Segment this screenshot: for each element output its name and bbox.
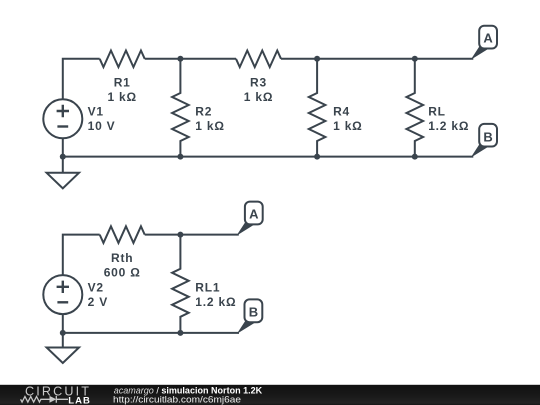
logo diode [50, 396, 69, 403]
wire bottom rail 2 [63, 332, 239, 334]
svg-text:1.2 kΩ: 1.2 kΩ [195, 295, 236, 309]
resistor R2 [172, 59, 189, 157]
svg-text:600 Ω: 600 Ω [104, 266, 141, 280]
wire R3 to node A corner [281, 58, 473, 60]
resistor RL1 [172, 235, 189, 333]
svg-text:Rth: Rth [111, 251, 133, 265]
node A flag (bottom circuit) [236, 202, 262, 236]
svg-text:1 kΩ: 1 kΩ [195, 119, 225, 133]
node junction top rail 2 at RL1 [177, 232, 183, 238]
node junction bottom rail at R2 [177, 154, 183, 160]
svg-text:LAB: LAB [68, 395, 91, 405]
node junction top rail at R2 [177, 56, 183, 62]
node junction top rail at R4 [314, 56, 320, 62]
node A flag (top circuit) [471, 26, 497, 60]
wire R1 to R3 [145, 58, 236, 60]
resistor R3 [236, 51, 281, 68]
svg-text:R1: R1 [114, 76, 131, 90]
resistor R1 [100, 51, 145, 68]
svg-text:B: B [249, 304, 258, 319]
ground [47, 157, 79, 189]
node B flag (bottom circuit) [237, 299, 262, 334]
svg-text:V2: V2 [88, 281, 104, 295]
svg-text:B: B [483, 129, 492, 144]
svg-text:http://circuitlab.com/c6mj6ae: http://circuitlab.com/c6mj6ae [113, 395, 241, 405]
svg-text:RL1: RL1 [195, 281, 220, 295]
wire bottom rail [63, 156, 474, 158]
node junction bottom rail at V1 [60, 154, 66, 160]
node junction bottom rail 2 at V2 [60, 330, 66, 336]
node junction bottom rail at R4 [314, 154, 320, 160]
voltage source V2 [43, 275, 82, 314]
svg-text:1 kΩ: 1 kΩ [244, 90, 274, 104]
svg-text:2 V: 2 V [88, 295, 108, 309]
node junction bottom rail at RL [412, 154, 418, 160]
svg-text:V1: V1 [88, 105, 104, 119]
svg-text:RL: RL [428, 105, 446, 119]
footer bar [0, 385, 540, 405]
svg-text:1 kΩ: 1 kΩ [333, 119, 363, 133]
svg-text:1.2 kΩ: 1.2 kΩ [428, 119, 469, 133]
svg-text:R2: R2 [195, 105, 212, 119]
resistor Rth [100, 226, 145, 243]
ground 2 [47, 333, 79, 363]
wire V2 top to rail corner [63, 235, 100, 276]
svg-text:R3: R3 [250, 76, 267, 90]
logo resistor zigzag [21, 396, 50, 402]
svg-text:10 V: 10 V [88, 119, 116, 133]
node junction bottom rail 2 at RL1 [177, 330, 183, 336]
svg-text:A: A [249, 206, 259, 221]
svg-text:A: A [483, 31, 493, 46]
wire V2 bottom to bottom rail [62, 314, 64, 333]
node B flag (top circuit) [471, 124, 497, 158]
resistor RL [407, 59, 424, 157]
svg-text:R4: R4 [333, 105, 350, 119]
resistor R4 [309, 59, 326, 157]
svg-text:1 kΩ: 1 kΩ [107, 90, 137, 104]
wire V1 top to top rail corner [63, 59, 100, 100]
wire Rth to node A corner [145, 234, 239, 236]
voltage source V1 [43, 99, 82, 138]
node junction top rail at RL [412, 56, 418, 62]
wire V1 bottom to bottom rail [62, 138, 64, 156]
